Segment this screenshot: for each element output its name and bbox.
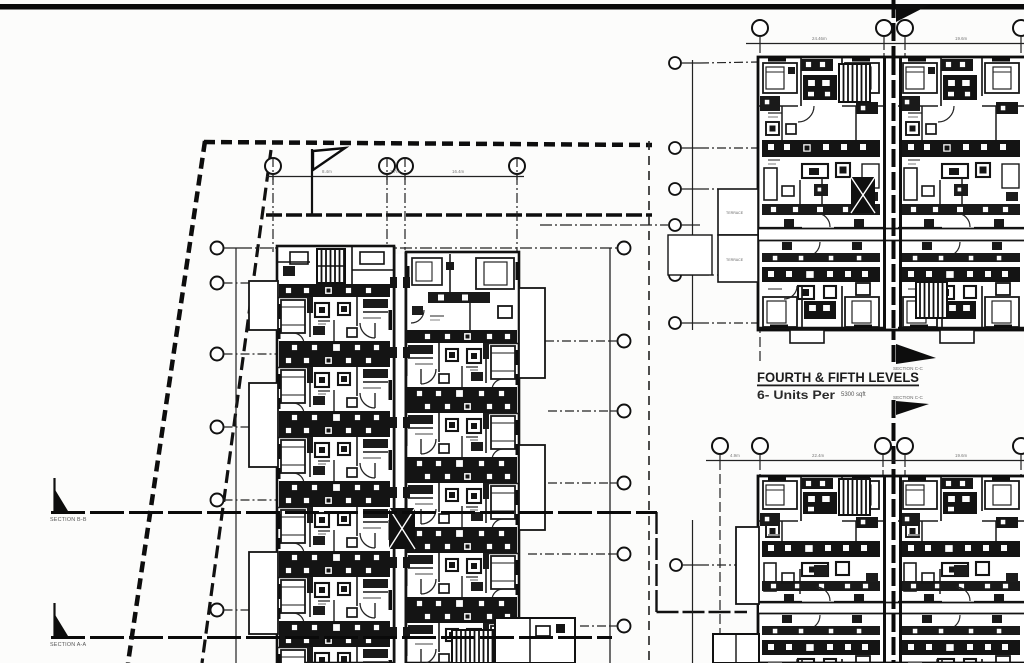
top bubbles of south-east plan	[712, 438, 728, 454]
grid line vertical A	[272, 157, 274, 252]
corridor wall west	[394, 246, 396, 663]
west strip unit 1	[277, 284, 392, 354]
section A-A cut line overlay	[51, 636, 612, 639]
NE match wall east	[899, 57, 902, 330]
svg-text:SECTION C-C: SECTION C-C	[893, 395, 924, 400]
west dim extension line NE plan	[692, 60, 694, 330]
west strip entry zone walls	[277, 246, 394, 284]
balcony east box 2	[519, 445, 545, 530]
grid bubble C (405,166)	[397, 158, 413, 174]
section B-B jog down	[655, 512, 657, 612]
section C-C flag below top-right plan	[896, 344, 936, 364]
SE match wall west	[883, 476, 886, 663]
section B-B marker flag	[54, 478, 68, 511]
NE stair row2	[916, 282, 947, 318]
grid line y=248 across plan	[240, 247, 617, 249]
grid bubble B (387,166)	[379, 158, 395, 174]
NE stair row1	[839, 64, 870, 102]
svg-text:8.4m: 8.4m	[322, 169, 332, 174]
dimension line NE plan	[746, 43, 1024, 45]
NE match wall west	[883, 57, 886, 330]
grid line vertical B	[386, 157, 388, 250]
elevator core in corridor	[389, 508, 415, 549]
dim extension line x=236	[235, 248, 237, 663]
balcony west 2	[249, 383, 278, 467]
setback line diagonal	[202, 150, 271, 663]
terrace box 1	[718, 189, 758, 235]
SE row1 unit 2	[898, 477, 1024, 602]
corridor of west plan	[395, 254, 406, 663]
SE corridor	[759, 603, 1024, 613]
SE grid line x=1021	[1020, 460, 1022, 476]
SE grid stems to plan	[883, 461, 905, 476]
small annex box	[668, 235, 712, 275]
east strip unit 6	[404, 610, 519, 663]
section B-B jog east	[657, 611, 748, 613]
NE corridor walls	[758, 228, 1024, 230]
section A-A marker flag	[54, 603, 68, 636]
west strip unit 2	[277, 354, 392, 424]
west bubbles of NE plan	[669, 57, 681, 69]
section flag on west plan top	[312, 148, 345, 216]
svg-text:2.7m: 2.7m	[390, 169, 400, 174]
svg-text:TERRACE: TERRACE	[726, 258, 744, 262]
SE stair	[839, 479, 870, 515]
west strip outer walls	[277, 246, 394, 663]
grid line vertical C	[404, 157, 406, 250]
svg-text:22.4m: 22.4m	[812, 453, 825, 458]
stair bottom of west plan	[452, 630, 494, 663]
svg-text:16.4m: 16.4m	[452, 169, 465, 174]
dimension line SE plan	[706, 460, 1024, 462]
east strip outer walls	[406, 252, 519, 663]
section B-B cut line overlay	[51, 511, 657, 514]
west strip unit 3	[277, 424, 392, 494]
SE west wing	[736, 527, 759, 604]
east grid bubble row (x=624)	[618, 242, 631, 255]
stair top (west strip)	[317, 249, 345, 283]
east strip top bedrooms zone	[406, 254, 519, 330]
west stems NE plan	[681, 62, 758, 323]
NE plan outer body	[758, 57, 1024, 330]
west grid stems	[224, 248, 278, 610]
bubble stems SE	[720, 454, 1021, 460]
svg-text:TERRACE: TERRACE	[726, 211, 744, 215]
SE grid line x=760	[759, 460, 761, 476]
SE row2 unit 1	[758, 615, 884, 663]
svg-text:6- Units Per: 6- Units Per	[757, 388, 835, 402]
grid bubble A (273,166)	[265, 158, 281, 174]
west grid bubble row (x=217)	[211, 242, 224, 255]
SE west stem	[682, 564, 700, 566]
SE corridor walls	[758, 602, 1024, 604]
svg-text:19.6m: 19.6m	[955, 36, 968, 41]
grid line vertical x=648 dashed	[648, 141, 650, 663]
property line diagonal west	[128, 141, 205, 663]
svg-text:FOURTH & FIFTH LEVELS: FOURTH & FIFTH LEVELS	[757, 370, 919, 385]
top bubbles of north-east plan	[752, 20, 768, 36]
grid line vertical D	[516, 157, 518, 254]
corridor door clusters	[390, 277, 410, 638]
bubble stems west plan	[273, 174, 517, 180]
dim extension line x=610	[609, 248, 611, 663]
east strip unit 4	[404, 470, 519, 540]
section C-C flag (lower)	[896, 401, 929, 415]
SE west dim extension	[692, 520, 694, 663]
NE plan bottom balconies	[790, 330, 974, 343]
balcony east box 1	[519, 288, 545, 378]
NE grid stems to plan	[884, 44, 905, 57]
svg-text:4.9m: 4.9m	[730, 453, 740, 458]
NE grid line x=1021	[1020, 43, 1022, 60]
NE corridor	[759, 229, 1024, 240]
SE match wall east	[899, 476, 902, 663]
bubble stems NE	[760, 36, 1021, 43]
svg-text:SECTION A-A: SECTION A-A	[50, 642, 87, 648]
east strip unit 3	[404, 400, 519, 470]
match line C-C overlay through SE plan	[892, 476, 896, 663]
NE elevator	[851, 177, 875, 213]
match line C-C (top right)	[892, 0, 896, 362]
SE bottom-left rooms	[713, 634, 759, 663]
west strip unit 5	[277, 564, 392, 634]
balcony west 3	[249, 552, 278, 634]
NE row1 unit 1	[758, 58, 884, 228]
terrace box 2	[718, 235, 758, 282]
NE row2 unit 1	[758, 242, 884, 329]
top border bar	[0, 4, 1024, 10]
west strip entry fixtures	[283, 266, 295, 276]
dimension line top of west plan	[266, 176, 524, 178]
svg-text:19.6m: 19.6m	[955, 453, 968, 458]
east strip unit 2	[404, 330, 519, 400]
east strip unit 5	[404, 540, 519, 610]
title underline	[757, 385, 919, 387]
NE grid line x=760	[759, 43, 761, 362]
grid line y=225 short	[540, 224, 668, 226]
NE row1 unit 2	[898, 58, 1024, 228]
SE grid line x=720	[719, 460, 721, 663]
property line top (dashed)	[204, 142, 652, 145]
section A-A cut line	[51, 636, 612, 639]
match line C-C overlay through NE plan	[892, 57, 896, 330]
svg-text:5300 sqft: 5300 sqft	[841, 392, 866, 398]
east grid stems	[528, 341, 618, 626]
west strip unit 6	[277, 634, 392, 663]
SE row1 unit 1	[758, 477, 884, 602]
section C-C flag at top edge	[896, 4, 931, 22]
balcony west 1	[249, 281, 278, 330]
svg-text:24.46m: 24.46m	[812, 36, 827, 41]
SE plan outer body	[758, 476, 1024, 663]
SE row2 unit 2	[898, 615, 1024, 663]
bottom-east extension rooms	[495, 618, 575, 663]
SE west bubble	[670, 559, 682, 571]
match line C-C (bottom right)	[892, 400, 896, 663]
setback line horizontal bold dashed	[266, 213, 652, 217]
svg-text:SECTION B-B: SECTION B-B	[50, 517, 87, 523]
section B-B cut line	[51, 511, 657, 514]
NE row2 unit 2	[898, 242, 1024, 329]
grid bubble D (517,166)	[509, 158, 525, 174]
west strip unit 4	[277, 494, 392, 564]
corridor wall east	[405, 252, 407, 663]
